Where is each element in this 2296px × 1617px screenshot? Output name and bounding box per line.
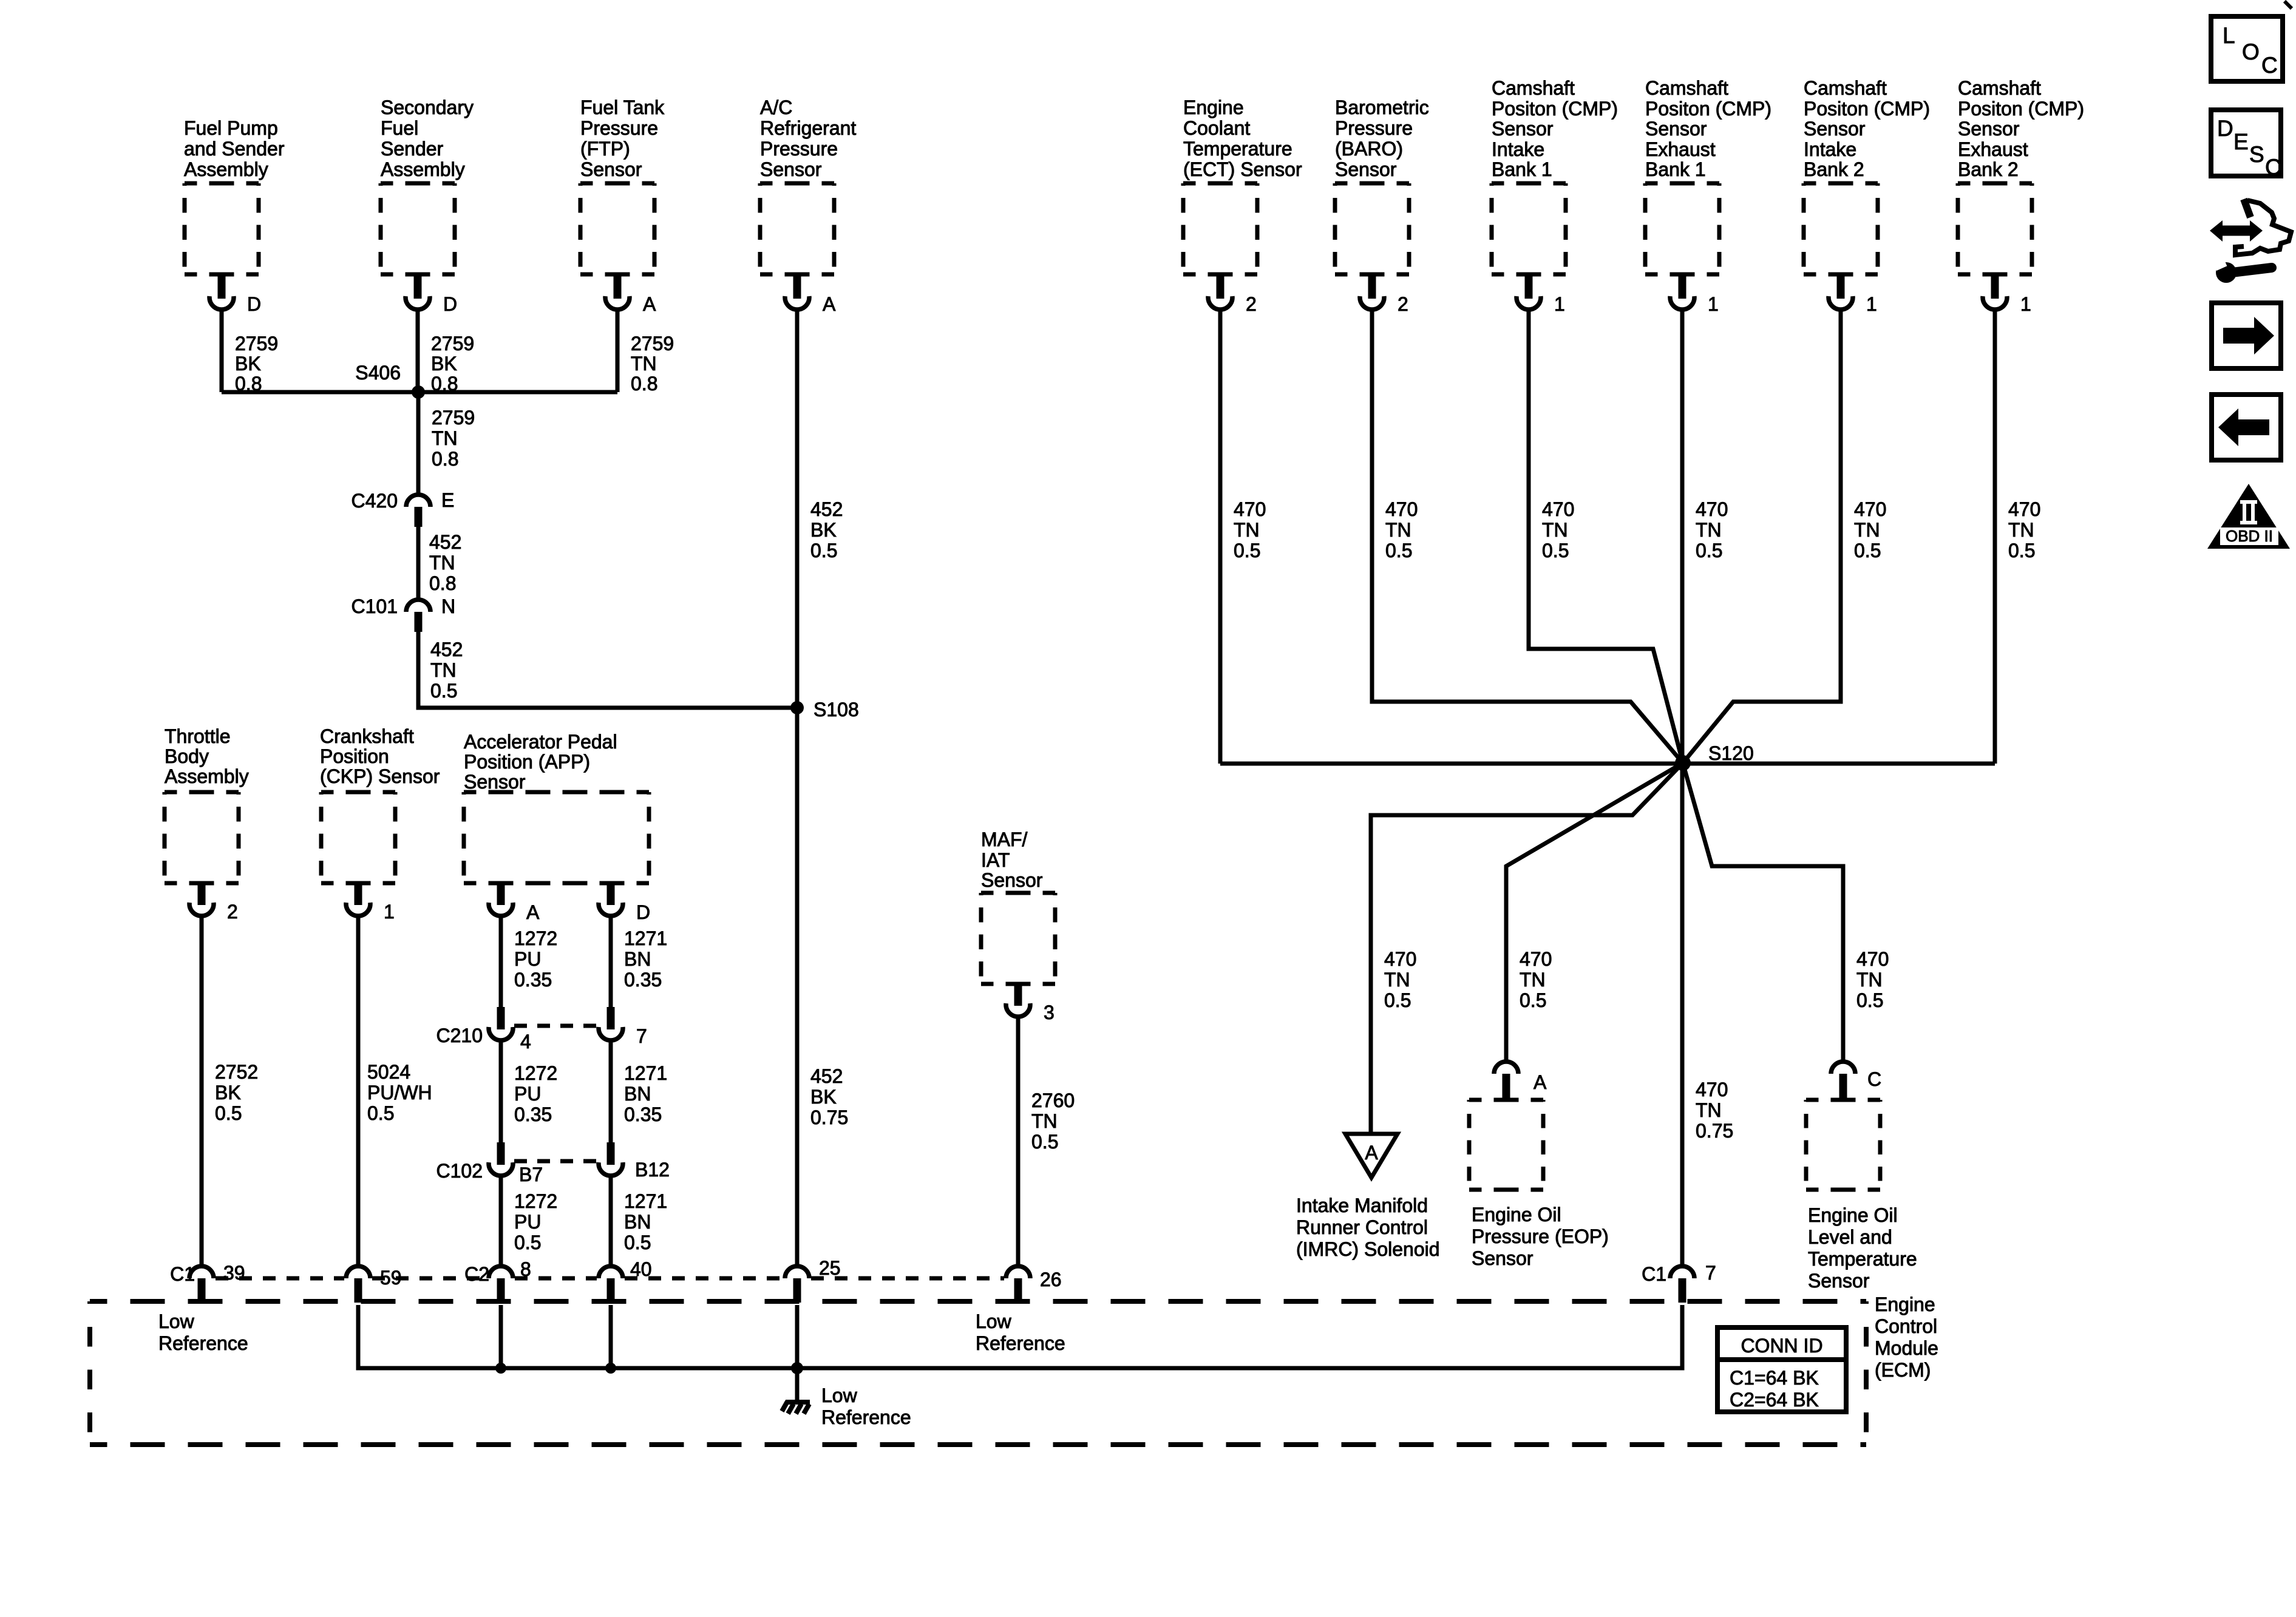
svg-text:Engine: Engine <box>1875 1293 1935 1315</box>
svg-text:0.5: 0.5 <box>1031 1131 1058 1153</box>
svg-text:0.35: 0.35 <box>514 1103 552 1125</box>
svg-text:Body: Body <box>165 745 209 767</box>
component: Camshaft Positon (CMP) Sensor Exhaust Bank 1 (pin 1) <box>1645 77 1771 315</box>
svg-text:A: A <box>1533 1071 1547 1093</box>
svg-text:(ECT) Sensor: (ECT) Sensor <box>1183 158 1302 180</box>
svg-text:0.5: 0.5 <box>1520 989 1546 1011</box>
svg-text:470: 470 <box>1234 498 1266 520</box>
svg-text:Reference: Reference <box>821 1406 911 1428</box>
svg-text:BK: BK <box>810 1086 837 1108</box>
svg-text:Accelerator Pedal: Accelerator Pedal <box>464 731 617 753</box>
svg-text:Bank 1: Bank 1 <box>1645 158 1706 180</box>
svg-text:Temperature: Temperature <box>1808 1248 1917 1270</box>
svg-text:Sensor: Sensor <box>981 869 1043 891</box>
svg-text:BK: BK <box>215 1082 241 1103</box>
svg-text:TN: TN <box>1031 1110 1058 1132</box>
svg-text:0.35: 0.35 <box>514 969 552 991</box>
splice S406 <box>222 362 617 399</box>
svg-text:0.5: 0.5 <box>1854 540 1881 561</box>
svg-text:C: C <box>2265 155 2281 180</box>
component: Engine Oil Level and Temperature Sensor (pin C) <box>1806 1062 1917 1292</box>
svg-text:PU: PU <box>514 1083 541 1105</box>
svg-text:0.8: 0.8 <box>631 373 657 395</box>
wire 1272 PU 0.35 from C210 pin 4 to C102 pin B7 <box>501 1040 557 1144</box>
svg-text:(FTP): (FTP) <box>580 138 630 160</box>
svg-text:Camshaft: Camshaft <box>1645 77 1728 99</box>
svg-text:Engine Oil: Engine Oil <box>1808 1204 1898 1226</box>
component: A/C Refrigerant Pressure Sensor (pin A) <box>760 97 856 315</box>
svg-text:(ECM): (ECM) <box>1875 1359 1931 1381</box>
svg-text:D: D <box>443 293 457 315</box>
svg-text:TN: TN <box>1234 519 1260 541</box>
wire from pin 25 to internal ground <box>795 1305 800 1402</box>
svg-text:Intake: Intake <box>1804 138 1856 160</box>
wire 2759 TN 0.8 from FTP Sensor pin A to S406 <box>617 310 674 395</box>
svg-text:E: E <box>441 489 454 511</box>
svg-text:A: A <box>526 901 540 923</box>
svg-text:4: 4 <box>520 1031 531 1053</box>
wire 470 TN 0.5 from ECT Sensor pin 2 to S120 <box>1220 310 1266 764</box>
component: Camshaft Positon (CMP) Sensor Intake Bank 1 (pin 1) <box>1492 77 1618 315</box>
sidebar icon: back arrow button <box>2212 395 2281 460</box>
svg-text:Fuel: Fuel <box>381 117 418 139</box>
wire 452 BK 0.5 / 452 BK 0.75 from A/C sensor pin A through S108 to ECM pin 25 <box>797 310 848 1265</box>
svg-text:TN: TN <box>430 659 457 681</box>
svg-text:Assembly: Assembly <box>184 158 268 180</box>
svg-text:Positon (CMP): Positon (CMP) <box>1645 98 1771 120</box>
svg-text:0.35: 0.35 <box>624 969 662 991</box>
svg-text:452: 452 <box>810 1065 843 1087</box>
svg-text:Engine: Engine <box>1183 97 1244 118</box>
wire 2759 TN 0.8 from S406 to C420 <box>418 392 475 495</box>
svg-text:Sensor: Sensor <box>1335 158 1397 180</box>
svg-text:0.5: 0.5 <box>430 680 457 702</box>
svg-text:PU/WH: PU/WH <box>367 1082 432 1103</box>
sidebar icon: LOC button <box>2211 16 2283 81</box>
svg-text:Pressure: Pressure <box>580 117 658 139</box>
svg-text:Low: Low <box>158 1310 195 1332</box>
svg-text:Engine Oil: Engine Oil <box>1472 1204 1561 1225</box>
svg-text:A/C: A/C <box>760 97 792 118</box>
component: Engine Control Module (ECM) dashed box <box>90 1293 1938 1445</box>
ground symbol (Low Reference) <box>782 1385 911 1428</box>
svg-text:D: D <box>2217 116 2233 141</box>
svg-text:Pressure: Pressure <box>1335 117 1413 139</box>
svg-text:BK: BK <box>810 519 837 541</box>
svg-text:BN: BN <box>624 1211 651 1233</box>
svg-text:1271: 1271 <box>624 927 667 949</box>
svg-text:0.8: 0.8 <box>429 572 456 594</box>
svg-text:Intake Manifold: Intake Manifold <box>1296 1195 1428 1216</box>
svg-text:Positon (CMP): Positon (CMP) <box>1492 98 1618 120</box>
wire 470 TN 0.5 from CMP Intake Bank 1 pin 1 to S120 <box>1529 310 1683 763</box>
svg-text:TN: TN <box>1520 969 1546 991</box>
svg-text:26: 26 <box>1040 1269 1062 1290</box>
svg-text:Sensor: Sensor <box>760 158 822 180</box>
svg-text:0.5: 0.5 <box>1856 989 1883 1011</box>
component: Accelerator Pedal Position (APP) Sensor (pins A and D) <box>464 731 650 923</box>
svg-text:TN: TN <box>1542 519 1568 541</box>
svg-text:5024: 5024 <box>367 1061 410 1083</box>
svg-text:C102: C102 <box>436 1160 483 1182</box>
svg-text:0.5: 0.5 <box>1696 540 1722 561</box>
svg-text:0.35: 0.35 <box>624 1103 662 1125</box>
svg-text:25: 25 <box>819 1257 841 1279</box>
svg-text:A: A <box>1365 1142 1378 1164</box>
wire 470 TN 0.5 / 470 TN 0.75 from CMP Exhaust Bank 1 pin 1 through S120 to ECM pin C1-7 <box>1682 310 1733 1265</box>
svg-text:Intake: Intake <box>1492 138 1544 160</box>
svg-text:1272: 1272 <box>514 927 557 949</box>
svg-text:0.5: 0.5 <box>514 1232 541 1253</box>
svg-text:0.5: 0.5 <box>1385 540 1412 561</box>
svg-text:B12: B12 <box>635 1159 670 1181</box>
wire 2759 BK 0.8 from Secondary Fuel Sender pin D to S406 <box>418 310 474 395</box>
svg-text:2759: 2759 <box>432 407 475 429</box>
svg-text:2760: 2760 <box>1031 1090 1075 1111</box>
svg-text:Fuel Pump: Fuel Pump <box>184 117 278 139</box>
svg-text:Refrigerant: Refrigerant <box>760 117 856 139</box>
svg-text:Low: Low <box>976 1310 1012 1332</box>
sidebar icon: OBD II triangle <box>2207 484 2290 549</box>
svg-text:3: 3 <box>1044 1002 1055 1023</box>
component: Barometric Pressure (BARO) Sensor (pin 2) <box>1335 97 1429 315</box>
svg-text:Secondary: Secondary <box>381 97 474 118</box>
ECM connector C1 pin 39 <box>170 1262 245 1303</box>
svg-text:CONN ID: CONN ID <box>1741 1335 1822 1357</box>
svg-text:Positon (CMP): Positon (CMP) <box>1958 98 2084 120</box>
svg-text:Position (APP): Position (APP) <box>464 751 590 773</box>
svg-text:D: D <box>247 293 261 315</box>
component: Secondary Fuel Sender Assembly (pin D) <box>381 97 474 315</box>
wire 470 TN 0.5 from CMP Exhaust Bank 2 pin 1 to S120 <box>1995 310 2040 764</box>
wire 452 TN 0.8 from C420 to C101 <box>418 527 461 598</box>
svg-text:2: 2 <box>1246 293 1257 315</box>
svg-text:C2: C2 <box>464 1263 489 1285</box>
svg-text:C: C <box>2261 53 2278 78</box>
ECM pin 59 <box>346 1266 402 1303</box>
svg-text:C2=64 BK: C2=64 BK <box>1730 1389 1819 1411</box>
svg-text:0.8: 0.8 <box>432 448 458 470</box>
svg-text:S108: S108 <box>813 699 859 720</box>
wire 1271 BN 0.35 from APP pin D to C210 pin 7 <box>611 916 667 1008</box>
svg-text:7: 7 <box>1705 1262 1716 1284</box>
wire 5024 PU/WH 0.5 from CKP Sensor pin 1 to ECM pin 59 <box>358 916 432 1265</box>
svg-text:PU: PU <box>514 948 541 970</box>
svg-text:Pressure: Pressure <box>760 138 838 160</box>
svg-text:1: 1 <box>1554 293 1565 315</box>
svg-text:Level and: Level and <box>1808 1226 1892 1248</box>
svg-text:TN: TN <box>2008 519 2034 541</box>
svg-text:452: 452 <box>430 639 463 660</box>
svg-text:1: 1 <box>1708 293 1719 315</box>
svg-text:7: 7 <box>636 1025 647 1047</box>
svg-text:Sensor: Sensor <box>464 771 526 793</box>
svg-text:1272: 1272 <box>514 1062 557 1084</box>
wire 1271 BN 0.5 from C102 pin B12 to ECM pin 40 <box>611 1176 667 1266</box>
svg-text:Fuel Tank: Fuel Tank <box>580 97 665 118</box>
dashed low-reference pin interconnect line <box>216 1276 1004 1281</box>
svg-text:2759: 2759 <box>431 333 474 354</box>
ECM pin 40 <box>599 1258 652 1303</box>
connector C101 pin N <box>352 595 456 632</box>
svg-text:TN: TN <box>1854 519 1880 541</box>
svg-text:Low: Low <box>821 1385 858 1406</box>
svg-text:Assembly: Assembly <box>381 158 465 180</box>
svg-text:C420: C420 <box>352 490 398 512</box>
svg-text:1: 1 <box>2020 293 2031 315</box>
svg-text:0.5: 0.5 <box>1234 540 1260 561</box>
svg-text:Bank 2: Bank 2 <box>1804 158 1864 180</box>
svg-text:A: A <box>643 293 656 315</box>
svg-text:(BARO): (BARO) <box>1335 138 1403 160</box>
svg-text:and Sender: and Sender <box>184 138 285 160</box>
svg-text:470: 470 <box>1385 498 1418 520</box>
svg-text:470: 470 <box>1520 948 1552 970</box>
wire 470 TN 0.5 from S120 to EOP Sensor pin A <box>1506 763 1683 1062</box>
svg-text:Reference: Reference <box>976 1332 1065 1354</box>
svg-text:E: E <box>2233 129 2249 154</box>
svg-text:Camshaft: Camshaft <box>1492 77 1575 99</box>
ECM connector C2 pin 8 <box>464 1258 531 1303</box>
svg-text:Pressure (EOP): Pressure (EOP) <box>1472 1225 1609 1247</box>
svg-text:Camshaft: Camshaft <box>1804 77 1887 99</box>
svg-text:452: 452 <box>810 498 843 520</box>
component: MAF/IAT Sensor (pin 3) <box>981 829 1055 1023</box>
svg-text:TN: TN <box>1856 969 1883 991</box>
svg-text:O: O <box>2242 39 2260 64</box>
svg-text:0.5: 0.5 <box>2008 540 2035 561</box>
svg-text:Coolant: Coolant <box>1183 117 1250 139</box>
CONN ID table <box>1717 1327 1846 1412</box>
svg-text:(IMRC) Solenoid: (IMRC) Solenoid <box>1296 1238 1440 1260</box>
svg-text:PU: PU <box>514 1211 541 1233</box>
svg-text:Assembly: Assembly <box>165 765 249 787</box>
svg-text:2: 2 <box>1398 293 1408 315</box>
wire 1272 PU 0.5 from C102 pin B7 to ECM pin 8 <box>501 1176 557 1266</box>
svg-text:D: D <box>636 901 650 923</box>
svg-text:1271: 1271 <box>624 1062 667 1084</box>
svg-text:470: 470 <box>2008 498 2040 520</box>
ECM pin 25 <box>785 1257 841 1303</box>
svg-text:Positon (CMP): Positon (CMP) <box>1804 98 1930 120</box>
svg-text:BK: BK <box>431 353 457 375</box>
svg-text:BN: BN <box>624 948 651 970</box>
component: Engine Oil Pressure (EOP) Sensor (pin A) <box>1469 1062 1609 1269</box>
svg-text:2759: 2759 <box>631 333 674 354</box>
svg-text:39: 39 <box>223 1262 245 1284</box>
svg-text:Sender: Sender <box>381 138 444 160</box>
svg-text:0.5: 0.5 <box>1542 540 1569 561</box>
component: Intake Manifold Runner Control (IMRC) Solenoid (terminal A) <box>1296 1134 1440 1260</box>
wire 470 TN 0.5 from S120 to IMRC Solenoid <box>1371 763 1683 1134</box>
component: Fuel Pump and Sender Assembly (pin D) <box>184 117 285 315</box>
svg-text:Crankshaft: Crankshaft <box>320 725 414 747</box>
svg-text:BK: BK <box>235 353 261 375</box>
svg-text:IAT: IAT <box>981 849 1010 871</box>
svg-text:Sensor: Sensor <box>1804 118 1866 140</box>
svg-text:0.5: 0.5 <box>215 1102 242 1124</box>
svg-text:(CKP) Sensor: (CKP) Sensor <box>320 765 440 787</box>
svg-text:1272: 1272 <box>514 1190 557 1212</box>
svg-text:Temperature: Temperature <box>1183 138 1292 160</box>
svg-text:Control: Control <box>1875 1315 1937 1337</box>
svg-text:L: L <box>2223 23 2235 48</box>
svg-text:0.5: 0.5 <box>367 1102 394 1124</box>
svg-text:0.5: 0.5 <box>624 1232 651 1253</box>
wire 1271 BN 0.35 from C210 pin 7 to C102 pin B12 <box>611 1040 667 1144</box>
svg-text:S120: S120 <box>1708 742 1754 764</box>
svg-text:TN: TN <box>1384 969 1410 991</box>
svg-text:2752: 2752 <box>215 1061 258 1083</box>
svg-text:470: 470 <box>1542 498 1574 520</box>
svg-text:0.5: 0.5 <box>810 540 837 561</box>
svg-text:Throttle: Throttle <box>165 725 230 747</box>
connector C102 pins B7 and B12 <box>436 1142 670 1185</box>
splice S120 with horizontal bus <box>1220 742 1995 771</box>
svg-text:470: 470 <box>1384 948 1416 970</box>
svg-text:S: S <box>2249 142 2264 167</box>
svg-text:1271: 1271 <box>624 1190 667 1212</box>
svg-text:TN: TN <box>429 552 455 574</box>
svg-text:C1: C1 <box>170 1263 195 1285</box>
svg-text:Barometric: Barometric <box>1335 97 1429 118</box>
label Low Reference (pin 26) <box>976 1310 1065 1354</box>
svg-text:TN: TN <box>432 427 458 449</box>
sidebar icon: next arrow button <box>2212 303 2281 368</box>
label Low Reference (pin 39) <box>158 1310 248 1354</box>
svg-text:470: 470 <box>1856 948 1889 970</box>
svg-text:A: A <box>823 293 836 315</box>
svg-text:Sensor: Sensor <box>1645 118 1707 140</box>
svg-text:C1=64 BK: C1=64 BK <box>1730 1367 1819 1389</box>
svg-text:Sensor: Sensor <box>580 158 642 180</box>
svg-text:0.75: 0.75 <box>1696 1120 1733 1142</box>
wire 452 TN 0.5 from C101 to S108 <box>418 632 797 708</box>
svg-text:TN: TN <box>631 353 657 375</box>
svg-text:470: 470 <box>1854 498 1886 520</box>
ECM connector C1 pin 7 <box>1642 1262 1716 1303</box>
svg-text:2: 2 <box>227 901 238 923</box>
svg-text:S406: S406 <box>355 362 401 384</box>
svg-text:Position: Position <box>320 745 389 767</box>
component: Engine Coolant Temperature (ECT) Sensor (pin 2) <box>1183 97 1302 315</box>
component: Camshaft Positon (CMP) Sensor Intake Bank 2 (pin 1) <box>1804 77 1930 315</box>
svg-text:Sensor: Sensor <box>1958 118 2020 140</box>
svg-text:1: 1 <box>1866 293 1877 315</box>
ECM pin 26 <box>1006 1266 1062 1303</box>
svg-text:OBD II: OBD II <box>2226 527 2273 545</box>
svg-text:Exhaust: Exhaust <box>1958 138 2028 160</box>
svg-text:C1: C1 <box>1642 1263 1666 1285</box>
svg-text:TN: TN <box>1385 519 1411 541</box>
svg-text:N: N <box>441 595 455 617</box>
component: Throttle Body Assembly (pin 2) <box>165 725 249 923</box>
svg-text:TN: TN <box>1696 1099 1722 1121</box>
svg-text:Reference: Reference <box>158 1332 248 1354</box>
svg-text:TN: TN <box>1696 519 1722 541</box>
splice S108 <box>790 699 859 720</box>
svg-text:470: 470 <box>1696 498 1728 520</box>
svg-text:Runner Control: Runner Control <box>1296 1216 1428 1238</box>
wire 470 TN 0.5 from BARO Sensor pin 2 to S120 <box>1372 310 1683 763</box>
svg-text:0.75: 0.75 <box>810 1107 848 1128</box>
svg-text:0.5: 0.5 <box>1384 989 1411 1011</box>
connector C420 pin E <box>352 489 455 527</box>
component: Fuel Tank Pressure (FTP) Sensor (pin A) <box>580 97 665 315</box>
connector C210 pins 4 and 7 <box>436 1007 647 1053</box>
svg-text:1: 1 <box>384 901 395 923</box>
sidebar icon: hand with wrench (repair info) <box>2210 199 2291 283</box>
svg-text:Exhaust: Exhaust <box>1645 138 1716 160</box>
component: Camshaft Positon (CMP) Sensor Exhaust Bank 2 (pin 1) <box>1958 77 2084 315</box>
svg-text:470: 470 <box>1696 1079 1728 1100</box>
svg-text:C101: C101 <box>352 595 398 617</box>
wire 2752 BK 0.5 from Throttle Body pin 2 to ECM pin 39 <box>202 916 258 1265</box>
svg-text:Bank 1: Bank 1 <box>1492 158 1552 180</box>
wire 470 TN 0.5 from S120 to Engine Oil Level and Temperature Sensor pin C <box>1683 763 1889 1062</box>
svg-text:MAF/: MAF/ <box>981 829 1028 850</box>
svg-text:BN: BN <box>624 1083 651 1105</box>
wire 470 TN 0.5 from CMP Intake Bank 2 pin 1 to S120 <box>1683 310 1886 763</box>
svg-text:Sensor: Sensor <box>1808 1270 1870 1292</box>
wire 1272 PU 0.35 from APP pin A to C210 pin 4 <box>501 916 557 1008</box>
svg-text:2759: 2759 <box>235 333 278 354</box>
svg-text:Sensor: Sensor <box>1492 118 1554 140</box>
svg-text:B7: B7 <box>519 1164 543 1185</box>
svg-text:Camshaft: Camshaft <box>1958 77 2041 99</box>
page corner tick <box>2284 1 2292 8</box>
svg-text:452: 452 <box>429 531 461 553</box>
svg-text:Bank 2: Bank 2 <box>1958 158 2019 180</box>
svg-text:C: C <box>1867 1068 1881 1090</box>
svg-text:Module: Module <box>1875 1337 1938 1359</box>
wire 2759 BK 0.8 from Fuel Pump pin D to S406 <box>222 310 278 395</box>
sidebar icon: DESC button <box>2211 110 2281 180</box>
component: Crankshaft Position (CKP) Sensor (pin 1) <box>320 725 440 923</box>
internal low reference bus inside ECM <box>358 1305 1682 1374</box>
svg-text:C210: C210 <box>436 1025 483 1046</box>
svg-text:Sensor: Sensor <box>1472 1247 1533 1269</box>
wire 2760 TN 0.5 from MAF/IAT Sensor pin 3 to ECM pin 26 <box>1018 1017 1075 1265</box>
